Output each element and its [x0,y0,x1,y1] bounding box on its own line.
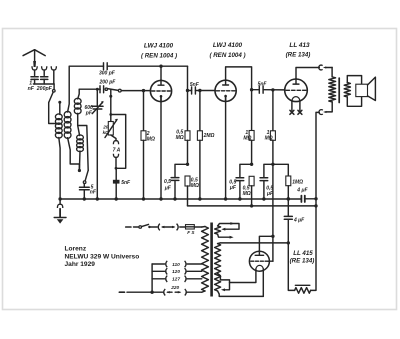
voltage tap 110 [152,263,165,265]
power transformer core [210,223,213,297]
node: coils L2/L4 junction [78,151,81,170]
voltage selector vertical [151,264,153,292]
svg-text:7 A: 7 A [113,148,121,154]
resistor 1 MOhm (V3 grid leak) [271,88,274,91]
output transformer primary [329,77,336,102]
wire: filament right to transformer [262,269,264,297]
plug connector (transformer return) [323,111,326,113]
resistor 2 MOhm (V2 grid leak) [199,91,201,131]
svg-text:220: 220 [170,285,179,291]
antenna [23,50,45,56]
svg-text:1MΩ: 1MΩ [292,180,303,186]
capacitor 5nF (coupling V2-V3) [252,89,260,91]
variable capacitor 600pF [96,88,99,91]
capacitor 5nF (block) [115,168,117,180]
wire: grid line to tube V1 [121,90,150,92]
wire: rail drop to coupling [187,66,189,90]
svg-text:LWJ 4100: LWJ 4100 [144,43,174,50]
wire: coil L3 top to grid row [78,89,101,99]
mains switch [134,226,139,228]
svg-text:Jahr 1929: Jahr 1929 [65,261,96,268]
wire: primary bottom to HT rail [326,102,332,112]
filament winding taps [218,274,230,290]
HV tap arrow [218,234,230,237]
output transformer secondary [344,83,350,97]
rectifier filament [256,265,263,268]
svg-text:MΩ: MΩ [147,137,155,143]
coil L3 (upper secondary) [74,98,81,104]
antenna terminal 3 [51,66,56,70]
mains lead dash (line 2) [119,291,124,293]
svg-text:pF: pF [85,110,93,116]
svg-text:MΩ: MΩ [243,135,251,141]
svg-text:NELWU 329 W Universo: NELWU 329 W Universo [65,254,140,261]
V3 filament [292,97,300,102]
svg-text:5nF: 5nF [190,82,200,88]
power transformer secondary (main winding) [215,244,221,291]
svg-text:μF: μF [229,185,237,191]
voltage tap 120 [152,270,165,272]
power transformer primary [202,227,209,292]
coil L2 (grid coil) [64,111,71,117]
svg-text:nF: nF [28,86,35,92]
resistor 0.5 MOhm (decoupling 2) [249,176,254,186]
HV winding to rectifier anode [218,242,220,245]
capacitor 0.5uF (decoupling 2) [240,164,252,178]
rectifier tube LL 415 [249,251,269,271]
capacitor 0.5uF (grid network) [260,177,268,179]
capacitor 5nF (band switch) [83,184,85,188]
svg-text:5nF: 5nF [121,180,131,186]
ground connector [59,199,61,204]
svg-text:MΩ: MΩ [243,191,251,197]
plug connector pair (line 1) [158,224,160,231]
plug connector pair (line 2) [164,289,166,296]
svg-text:5nF: 5nF [258,82,268,88]
svg-text:200 pF: 200 pF [99,80,117,86]
switch (band/wave change) [85,170,88,180]
switch (antenna selector) [53,90,56,93]
capacitor 4uF (smoothing, in bus) [300,196,302,202]
ground symbol [54,217,66,219]
wire: bias line down [272,164,274,236]
rheostat 20 kOhm [108,122,113,136]
svg-text:kΩ: kΩ [103,130,110,135]
svg-text:2MΩ: 2MΩ [203,133,215,139]
resistor 0.5 MOhm (decoupling 1) [185,176,190,186]
svg-text:4 μF: 4 μF [296,187,308,193]
tube envelope [215,80,236,101]
resistor (hum balance) [288,243,294,291]
svg-text:MΩ: MΩ [191,183,199,189]
coil L1 (antenna coil) [55,114,62,120]
capacitor 4uF (vertical) [287,199,289,217]
barretter 7A lamp holder [111,135,116,141]
wire: tap to band switch [78,126,89,171]
capacitor 0.5uF (decoupling 1) [175,164,188,177]
capacitor 300pF (feedback) [103,63,105,70]
svg-text:nF: nF [90,190,97,196]
capacitor 5nF (coupling V1-V2) [188,90,192,92]
wire: filament left to transformer [230,269,256,283]
node: coil L1 top post [58,101,61,104]
wire: bypass loop around barretter [109,113,112,116]
svg-text:MΩ: MΩ [265,135,273,141]
resistor 1 MOhm (V2 anode load) [251,90,253,131]
capacitor 200pF (grid series) [99,86,101,93]
ground bus wire [60,198,301,200]
svg-text:200pF: 200pF [36,86,53,92]
antenna terminal 2 [42,66,47,70]
svg-text:MΩ: MΩ [176,135,184,141]
capacitor 1nF (antenna) [31,76,38,78]
switch (grid) [105,88,107,90]
resistor 2 MOhm (V1 grid leak) [143,91,145,131]
coil L4 (lower secondary) [77,135,84,140]
wire: antenna junction bar [33,83,54,85]
plug connector (anode) [319,65,323,70]
wire: coil L2 bottom to junction [68,138,80,170]
svg-text:4 μF: 4 μF [293,217,305,223]
svg-text:LWJ 4100: LWJ 4100 [213,42,243,49]
wire: V2 anode rail [226,67,252,90]
wire: V2 cathode to bus [225,97,227,200]
antenna terminal 1 [32,66,37,70]
wire: switch to coil L1 tap [49,103,57,124]
tube envelope [285,79,308,102]
svg-text:( REN 1004 ): ( REN 1004 ) [209,52,245,59]
node: V2 grid leak junction [198,89,201,92]
speaker [356,84,368,96]
HT feed line [188,205,317,207]
fuse F.S. [186,225,195,229]
power transformer HV winding (top section) [215,226,221,234]
svg-text:127: 127 [172,277,180,283]
svg-text:0,5: 0,5 [164,179,171,185]
wire: coil L2 top to 300pF rail [68,66,104,112]
resistor 1 MOhm (grid network) [286,176,291,186]
wire: V1 cathode to bus [160,97,162,200]
wire: rectifier anode/grid tie [271,235,274,238]
HV winding top loop [218,224,239,230]
wire: coil L1 bottom to ground bus [59,138,60,200]
svg-text:( REN 1004 ): ( REN 1004 ) [141,52,177,59]
svg-text:μF: μF [164,185,172,191]
mains lead dash (line 1) [126,226,131,228]
svg-text:LL 415: LL 415 [293,250,313,257]
filament terminal x [298,110,302,114]
svg-text:LL 413: LL 413 [289,42,310,49]
output transformer core [338,78,340,102]
resistor 0.5 MOhm (V1 anode load) [187,91,189,131]
svg-text:(RE 134): (RE 134) [290,258,315,265]
wire: drop to rheostat [110,90,112,97]
svg-text:120: 120 [172,269,180,275]
svg-text:110: 110 [172,262,180,268]
svg-text:Lorenz: Lorenz [65,245,87,252]
svg-text:F S: F S [187,230,195,235]
tube envelope [150,80,171,101]
wire: HV secondary to rectifier anode [221,242,289,244]
wire: to HT line [187,186,189,206]
wire: anode rail V1 [107,65,187,67]
wire: V3 anode to output transformer [296,68,319,80]
wire: to HT line [251,186,253,206]
svg-text:300 pF: 300 pF [99,71,116,77]
winding bottom to filament line [218,291,264,296]
capacitor 200pF (antenna) [41,76,48,78]
wire: coil L3 bottom to tap junction [77,113,79,125]
voltage tap 127 [152,278,165,280]
wire: secondary to speaker [347,76,361,85]
filament terminal x [290,110,294,114]
grid bias network bracket [264,164,288,178]
svg-text:(RE 134): (RE 134) [286,52,311,59]
